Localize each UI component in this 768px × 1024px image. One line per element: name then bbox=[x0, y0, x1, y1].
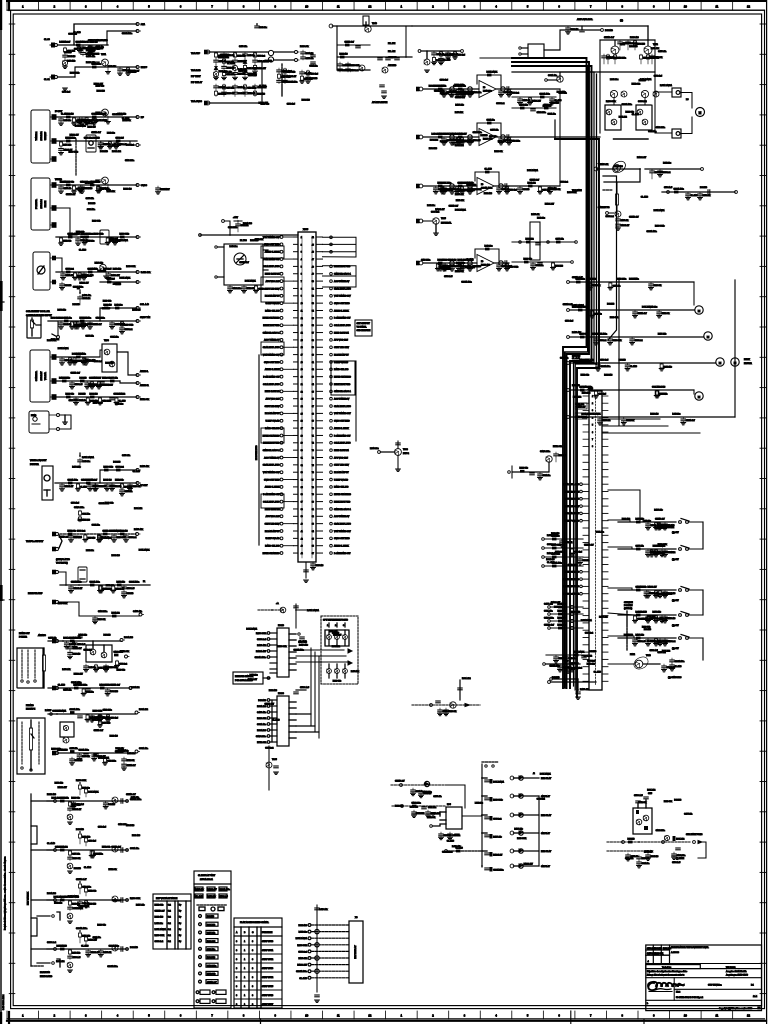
svg-text:R456 10k: R456 10k bbox=[117, 581, 125, 583]
extra drop on bus y357 bbox=[83, 357, 85, 358]
svg-text:23: 23 bbox=[301, 399, 303, 401]
svg-text:CR518 4n7: CR518 4n7 bbox=[345, 41, 355, 43]
svg-text:UHF/VHF: UHF/VHF bbox=[45, 131, 47, 140]
svg-text:CR518 4n7: CR518 4n7 bbox=[111, 846, 121, 848]
T2 row 11 box bbox=[206, 980, 218, 984]
T2 bottom box bbox=[216, 999, 226, 1003]
extra drop on bus y282 bbox=[650, 282, 652, 284]
mid right wire y58 bbox=[480, 57, 528, 59]
L stage 3 top node bbox=[79, 881, 81, 883]
svg-text:C2341 100n: C2341 100n bbox=[674, 188, 684, 190]
svg-text:56: 56 bbox=[312, 325, 314, 327]
pot P1 arrow bbox=[36, 324, 41, 326]
svg-text:R105 47k: R105 47k bbox=[493, 836, 501, 838]
amp lower wires bbox=[613, 98, 615, 105]
PIP chain 1 lower bbox=[215, 84, 217, 86]
M3 left pin 2 bbox=[294, 243, 299, 245]
T2 row 7 box bbox=[206, 947, 218, 951]
svg-text:R456 10k: R456 10k bbox=[351, 671, 359, 673]
fan feeds from connector bbox=[608, 520, 630, 522]
extra drop on bus y272 bbox=[107, 272, 109, 274]
right conn right pin 21 bbox=[602, 600, 608, 602]
svg-text:X605: X605 bbox=[303, 229, 309, 231]
svg-text:C901 10n: C901 10n bbox=[207, 949, 215, 951]
svg-text:/2: /2 bbox=[533, 773, 536, 775]
extra drop on bus y397 bbox=[115, 397, 117, 398]
svg-text:R334 6k8: R334 6k8 bbox=[644, 852, 652, 854]
B bus2 parts bbox=[60, 141, 62, 142]
PIP mid caps right bbox=[311, 54, 315, 56]
svg-text:R663 330k: R663 330k bbox=[69, 152, 78, 154]
M3 left pin 20 bbox=[294, 376, 299, 378]
M3 left pin 11 bbox=[294, 310, 299, 312]
svg-text:STBY OUT4: STBY OUT4 bbox=[262, 977, 274, 979]
rc cluster2 row bbox=[551, 627, 583, 629]
right conn left pin 19 bbox=[583, 585, 589, 587]
svg-text:2: 2 bbox=[54, 1013, 56, 1017]
top zone ruler band bbox=[7, 9, 765, 11]
y705 arrow out bbox=[465, 704, 470, 707]
svg-text:8: 8 bbox=[592, 446, 593, 448]
svg-text:9: 9 bbox=[653, 5, 655, 9]
svg-text:REMOTE AMP: REMOTE AMP bbox=[28, 592, 43, 595]
svg-text:36: 36 bbox=[301, 494, 303, 496]
T4 pin row 9 bbox=[312, 977, 349, 979]
svg-text:R772 39k: R772 39k bbox=[626, 420, 634, 422]
svg-text:R820 1k8: R820 1k8 bbox=[47, 794, 57, 796]
rows parts bbox=[526, 241, 531, 244]
right conn right pin 5 bbox=[602, 483, 608, 485]
svg-text:R820 1k8: R820 1k8 bbox=[615, 166, 623, 168]
svg-text:3.2: 3.2 bbox=[168, 917, 172, 919]
M3 right pin 33 bbox=[316, 471, 323, 473]
extra drop on bus y417 bbox=[682, 417, 684, 419]
svg-text:R772 39k: R772 39k bbox=[76, 231, 84, 233]
svg-text:C126 220n: C126 220n bbox=[422, 792, 431, 794]
K row2 jack bbox=[56, 752, 59, 755]
extra drop on bus y310 bbox=[658, 310, 660, 312]
svg-text:C338 2u2: C338 2u2 bbox=[560, 182, 568, 184]
svg-text:D651 BAV21: D651 BAV21 bbox=[75, 125, 86, 128]
svg-text:IR DATA INPUT: IR DATA INPUT bbox=[334, 471, 349, 474]
svg-text:11: 11 bbox=[716, 5, 719, 9]
LED row left stub bbox=[482, 795, 487, 797]
D bus2 wire bbox=[100, 281, 137, 283]
svg-text:AUDIO L DECK: AUDIO L DECK bbox=[334, 545, 349, 548]
svg-text:R1234 4k7: R1234 4k7 bbox=[637, 157, 646, 159]
svg-text:BAND SEL B/G: BAND SEL B/G bbox=[565, 571, 579, 574]
B bus2 wire bbox=[56, 140, 137, 142]
svg-text:CR518 4n7: CR518 4n7 bbox=[629, 217, 639, 219]
svg-text:44: 44 bbox=[312, 237, 314, 239]
A2 load chains bbox=[119, 67, 121, 69]
right conn left mini boxed labels bbox=[575, 403, 587, 409]
LED row 5 node bbox=[481, 850, 483, 852]
svg-text:0: 0 bbox=[252, 950, 254, 952]
rc cluster2 row bbox=[551, 606, 583, 608]
svg-text:C455 47n: C455 47n bbox=[658, 51, 666, 53]
svg-text:5v: 5v bbox=[179, 929, 181, 931]
LED in jack bbox=[400, 784, 403, 787]
svg-text:SDA1 DISPL BUS: SDA1 DISPL BUS bbox=[334, 287, 351, 290]
H bus parts bbox=[68, 533, 73, 536]
IC1 right stub bbox=[289, 663, 296, 665]
svg-text:74: 74 bbox=[312, 457, 314, 459]
switch circles bbox=[679, 637, 682, 640]
svg-text:R663 330k: R663 330k bbox=[467, 185, 476, 187]
svg-text:FUNCTION: FUNCTION bbox=[262, 932, 273, 934]
svg-text:R229 68k: R229 68k bbox=[98, 619, 106, 621]
svg-text:CR518 4n7: CR518 4n7 bbox=[91, 132, 101, 134]
svg-text:R820 1k8: R820 1k8 bbox=[110, 735, 118, 737]
right conn right pin 17 bbox=[602, 571, 608, 573]
frame right tick marks bbox=[760, 23, 766, 25]
transistor Q101 bbox=[102, 59, 109, 66]
svg-text:5: 5 bbox=[527, 5, 529, 9]
svg-text:3: 3 bbox=[343, 625, 344, 627]
opamp triangle bbox=[479, 129, 496, 146]
svg-text:BC848B: BC848B bbox=[589, 651, 597, 653]
svg-text:D651 BAV21: D651 BAV21 bbox=[68, 895, 79, 898]
svg-text:0: 0 bbox=[252, 995, 254, 997]
svg-text:R663 330k: R663 330k bbox=[104, 466, 113, 468]
rc cluster2 row bbox=[551, 613, 583, 615]
svg-text:R456 10k: R456 10k bbox=[652, 611, 660, 613]
M3 left pin 42 jack bbox=[280, 537, 283, 540]
svg-text:CR518 4n7: CR518 4n7 bbox=[530, 179, 540, 181]
svg-text:C455 47n: C455 47n bbox=[122, 455, 130, 457]
svg-text:R105 47k: R105 47k bbox=[600, 164, 608, 166]
svg-text:8-53 0000 1234: 8-53 0000 1234 bbox=[3, 994, 5, 1010]
svg-text:R334 6k8: R334 6k8 bbox=[429, 85, 437, 87]
T2 box r2 bbox=[219, 894, 227, 898]
L stage 1 top chain bbox=[79, 784, 81, 785]
extra drop on bus y237 bbox=[107, 237, 109, 238]
svg-text:AUDIO L: AUDIO L bbox=[140, 370, 149, 373]
cluster AV input stage A top wire bbox=[74, 24, 137, 45]
extra drop on bus y263 bbox=[444, 263, 446, 265]
L stage 1 top node bbox=[79, 782, 81, 784]
svg-text:6: 6 bbox=[558, 5, 560, 9]
svg-text:C2341 100n: C2341 100n bbox=[662, 593, 672, 595]
L stage 2 out jack bbox=[126, 849, 129, 852]
extra drop on bus y186 bbox=[435, 186, 437, 188]
svg-text:GL 4148: GL 4148 bbox=[272, 720, 279, 722]
fan wire row1 feed bbox=[608, 490, 640, 522]
LED diode bbox=[424, 781, 429, 786]
svg-text:C338 2u2: C338 2u2 bbox=[537, 799, 545, 801]
svg-text:C901 10n: C901 10n bbox=[130, 848, 140, 850]
svg-text:C901 10n: C901 10n bbox=[543, 475, 551, 477]
svg-text:45: 45 bbox=[312, 244, 314, 246]
svg-text:C338 2u2: C338 2u2 bbox=[431, 212, 439, 214]
svg-text:C2341 100n: C2341 100n bbox=[109, 945, 119, 947]
svg-text:R105 47k: R105 47k bbox=[456, 200, 464, 202]
svg-text:R663 330k: R663 330k bbox=[130, 898, 141, 900]
svg-text:SER MAINT 50/60: SER MAINT 50/60 bbox=[686, 833, 703, 836]
svg-text:R881 2k2: R881 2k2 bbox=[66, 137, 74, 139]
svg-text:1: 1 bbox=[592, 396, 593, 398]
L stage 1 out jack bbox=[126, 800, 129, 803]
svg-text:IC: IC bbox=[481, 261, 484, 263]
right conn left pin 10 bbox=[583, 520, 589, 522]
rc cluster2 row bbox=[551, 620, 583, 622]
L stage 2 top node bbox=[79, 831, 81, 833]
svg-text:3.2: 3.2 bbox=[168, 935, 172, 937]
svg-text:R820 1k8: R820 1k8 bbox=[340, 53, 348, 55]
svg-text:CR518 4n7: CR518 4n7 bbox=[638, 313, 647, 315]
svg-text:R105 47k: R105 47k bbox=[654, 509, 662, 511]
bus extra line bbox=[512, 66, 588, 688]
B out terminal bbox=[136, 116, 139, 119]
B dashed net column bbox=[75, 139, 77, 176]
svg-text:R1234 4k7: R1234 4k7 bbox=[74, 674, 83, 676]
amp right rail bbox=[654, 40, 656, 133]
right connector body bbox=[589, 391, 602, 690]
svg-text:BAND SEL B/G: BAND SEL B/G bbox=[334, 486, 349, 489]
svg-text:R456 10k: R456 10k bbox=[651, 48, 659, 50]
right conn left pin 22 bbox=[583, 607, 589, 609]
M3 left pin 14 bbox=[294, 332, 299, 334]
svg-text:C2341 100n: C2341 100n bbox=[540, 93, 550, 95]
svg-text:R229 68k: R229 68k bbox=[66, 393, 74, 395]
svg-text:R334 6k8: R334 6k8 bbox=[112, 555, 120, 557]
svg-text:79: 79 bbox=[312, 494, 314, 496]
svg-text:AN/AUS: AN/AUS bbox=[38, 634, 46, 637]
svg-text:COLOR/TINT COOL.BR: COLOR/TINT COOL.BR bbox=[26, 311, 50, 313]
M3 left pin 13 wire bbox=[283, 324, 294, 326]
K out1 bbox=[135, 711, 138, 714]
extra drop on bus y185 bbox=[98, 185, 100, 187]
svg-text:R1234 4k7: R1234 4k7 bbox=[297, 965, 308, 967]
svg-text:BC848B: BC848B bbox=[628, 838, 636, 840]
T3 row line bbox=[234, 1007, 282, 1009]
K row2 parts bbox=[70, 750, 75, 753]
svg-text:R881 2k2: R881 2k2 bbox=[443, 268, 451, 270]
svg-text:C2341 100n: C2341 100n bbox=[493, 869, 503, 871]
L stage 1 bus wire bbox=[47, 800, 128, 802]
M3 left pin 28 jack bbox=[280, 434, 283, 437]
svg-text:R229 68k: R229 68k bbox=[105, 502, 113, 504]
IC1 pin row 6 bbox=[270, 662, 277, 664]
opamp stage bus bbox=[423, 88, 479, 90]
T4 pin row 4 bbox=[312, 944, 349, 946]
svg-text:12: 12 bbox=[368, 1013, 371, 1017]
M3 right label row bbox=[330, 552, 333, 555]
svg-text:C2341 100n: C2341 100n bbox=[82, 275, 92, 277]
svg-text:R772 39k: R772 39k bbox=[122, 120, 130, 122]
svg-text:CR518 4n7: CR518 4n7 bbox=[77, 360, 86, 362]
right conn right pin 6 bbox=[602, 491, 608, 493]
svg-text:C338 2u2: C338 2u2 bbox=[116, 466, 124, 468]
svg-text:R105 47k: R105 47k bbox=[514, 829, 522, 831]
svg-text:TRAFO+SUPPLY: TRAFO+SUPPLY bbox=[26, 540, 44, 543]
svg-text:L640 22u: L640 22u bbox=[59, 41, 67, 43]
IC2 right stub bbox=[289, 737, 296, 739]
IC1 note box M8 bbox=[233, 672, 263, 684]
rc cluster row bbox=[545, 538, 583, 540]
M3 left pin 3 bbox=[294, 251, 299, 253]
M3 right pin 36 bbox=[316, 493, 323, 495]
svg-text:C789 1n5: C789 1n5 bbox=[77, 644, 85, 646]
right conn left pin 12 bbox=[583, 534, 589, 536]
vert junction bbox=[405, 26, 407, 57]
svg-text:CR518 4n7: CR518 4n7 bbox=[59, 537, 69, 539]
K box jacks bbox=[21, 767, 23, 769]
svg-text:GL 4148: GL 4148 bbox=[647, 640, 654, 642]
svg-text:5: 5 bbox=[148, 5, 150, 9]
switch row extra chain 3 bbox=[659, 590, 661, 591]
svg-text:0: 0 bbox=[236, 941, 238, 943]
svg-text:82: 82 bbox=[312, 516, 314, 518]
switch bracket bbox=[688, 521, 703, 523]
svg-text:AGC TUNER 9V: AGC TUNER 9V bbox=[264, 456, 280, 459]
svg-text:C2341 100n: C2341 100n bbox=[442, 852, 452, 854]
rc left label row bbox=[580, 512, 583, 515]
svg-text:C455 47n: C455 47n bbox=[603, 420, 611, 422]
svg-text:C338 2u2: C338 2u2 bbox=[119, 663, 127, 665]
svg-text:C126 220n: C126 220n bbox=[656, 830, 665, 832]
M3 left pin 39 jack bbox=[280, 515, 283, 518]
logo scribble overlay bbox=[655, 989, 671, 990]
svg-text:60: 60 bbox=[312, 355, 314, 357]
tint riser jack wire bbox=[57, 321, 59, 336]
svg-text:C455 47n: C455 47n bbox=[48, 637, 56, 639]
J bottom wire bbox=[48, 687, 130, 689]
svg-text:R772 39k: R772 39k bbox=[581, 375, 589, 377]
L stage 3 input jack bbox=[54, 899, 57, 902]
svg-text:R229 68k: R229 68k bbox=[449, 711, 457, 713]
PIP dashed divider bbox=[281, 64, 283, 96]
svg-text:R229 68k: R229 68k bbox=[483, 139, 493, 141]
rc left label row bbox=[580, 498, 583, 501]
svg-text:L640 22u: L640 22u bbox=[672, 413, 680, 415]
svg-text:C126 220n: C126 220n bbox=[607, 57, 616, 59]
svg-text:BC848B: BC848B bbox=[108, 804, 115, 806]
svg-text:25: 25 bbox=[301, 413, 303, 415]
svg-text:T672: T672 bbox=[653, 44, 659, 46]
amp caps x618 bbox=[627, 40, 629, 42]
IC1 pin row 5 bbox=[270, 656, 277, 658]
svg-text:C455 47n: C455 47n bbox=[636, 545, 644, 547]
M6 cell lower bbox=[335, 669, 340, 674]
A main wire bbox=[58, 44, 109, 46]
svg-text:C901 10n: C901 10n bbox=[110, 337, 118, 339]
svg-text:R1234 4k7: R1234 4k7 bbox=[288, 76, 297, 78]
M3 right label row bbox=[330, 544, 333, 547]
svg-text:AFC VCO 62.5: AFC VCO 62.5 bbox=[266, 515, 281, 518]
svg-text:D651 BAV21: D651 BAV21 bbox=[590, 412, 601, 415]
opamp chains below bbox=[443, 263, 445, 265]
left transistor Q bbox=[359, 65, 365, 71]
svg-text:IR DATA INPUT: IR DATA INPUT bbox=[265, 530, 280, 533]
svg-text:R663 330k: R663 330k bbox=[658, 544, 667, 546]
svg-text:BC848B: BC848B bbox=[605, 30, 613, 32]
svg-text:C338 2u2: C338 2u2 bbox=[493, 818, 501, 820]
T2 header line bbox=[194, 883, 231, 885]
M3 right pin 32 bbox=[316, 464, 323, 466]
svg-text:12: 12 bbox=[747, 5, 750, 9]
svg-text:MUTE SW AUDIO: MUTE SW AUDIO bbox=[263, 317, 280, 320]
M3 left pin 9 bbox=[294, 295, 299, 297]
IC2 pin row 2 bbox=[270, 705, 277, 707]
svg-text:6: 6 bbox=[592, 432, 593, 434]
svg-text:DECK MOT FWD: DECK MOT FWD bbox=[563, 586, 579, 588]
rc label mid row bbox=[580, 578, 583, 581]
svg-text:0: 0 bbox=[236, 986, 238, 988]
LED row 3 parts bbox=[485, 816, 489, 818]
rc cluster row bbox=[545, 565, 583, 567]
svg-text:38: 38 bbox=[301, 509, 303, 511]
svg-text:29504-203.31: 29504-203.31 bbox=[200, 879, 214, 881]
L stage 4 input jack bbox=[54, 948, 57, 951]
svg-text:C901 10n: C901 10n bbox=[83, 317, 91, 319]
M3 right pin 4 bbox=[316, 258, 323, 260]
svg-text:R105 47k: R105 47k bbox=[103, 588, 111, 590]
svg-text:26: 26 bbox=[301, 421, 303, 423]
svg-text:L640 22u: L640 22u bbox=[113, 283, 121, 285]
extra drop on bus y483 bbox=[106, 483, 108, 485]
svg-text:C126 220n: C126 220n bbox=[544, 618, 554, 620]
svg-text:R820 1k8: R820 1k8 bbox=[576, 417, 584, 419]
J row1 parts bbox=[70, 640, 75, 643]
svg-text:C338 2u2: C338 2u2 bbox=[649, 593, 657, 595]
y705 below parts bbox=[439, 708, 441, 710]
svg-text:24: 24 bbox=[301, 406, 303, 408]
svg-text:R1234 4k7: R1234 4k7 bbox=[665, 552, 674, 554]
svg-text:C2341 100n: C2341 100n bbox=[68, 479, 78, 481]
I bus wire bbox=[60, 584, 150, 586]
M3 left pin 12 jack bbox=[280, 316, 283, 319]
svg-text:R663 330k: R663 330k bbox=[297, 945, 307, 947]
svg-text:L640 22u: L640 22u bbox=[259, 27, 267, 29]
M3 left pin 34 wire bbox=[283, 479, 294, 481]
M3 right pin 42 bbox=[316, 537, 323, 539]
svg-text:R1234 4k7: R1234 4k7 bbox=[70, 135, 79, 137]
opamp out wire bbox=[496, 88, 511, 90]
svg-text:4: 4 bbox=[117, 1013, 119, 1017]
svg-text:R334 6k8: R334 6k8 bbox=[657, 386, 665, 388]
svg-text:1: 1 bbox=[244, 986, 246, 988]
M3 left pin 6 jack bbox=[280, 272, 283, 275]
svg-text:CR518 4n7: CR518 4n7 bbox=[88, 479, 98, 481]
svg-text:R772 39k: R772 39k bbox=[102, 846, 110, 848]
extra drop on bus y137 bbox=[458, 137, 460, 138]
mid cluster wire bbox=[512, 471, 548, 473]
L stage 3 top chain bbox=[79, 883, 81, 884]
svg-text:C789 1n5: C789 1n5 bbox=[647, 948, 655, 950]
svg-text:C455 47n: C455 47n bbox=[70, 748, 78, 750]
LED row 4 diode symbol bbox=[519, 831, 523, 835]
extra drop on bus y282 bbox=[609, 282, 611, 283]
T2 row 4 jack bbox=[199, 923, 202, 926]
svg-text:5v: 5v bbox=[179, 941, 181, 943]
svg-text:R334 6k8: R334 6k8 bbox=[629, 278, 637, 280]
svg-text:0: 0 bbox=[236, 977, 238, 979]
M3 left pin 9 jack bbox=[280, 294, 283, 297]
svg-text:C2341 100n: C2341 100n bbox=[71, 682, 81, 684]
L stage 3 lower transistor bbox=[67, 913, 73, 919]
svg-text:R772 39k: R772 39k bbox=[108, 869, 116, 871]
svg-text:C2341 100n: C2341 100n bbox=[70, 709, 80, 711]
right conn right pin 19 bbox=[602, 585, 608, 587]
svg-text:C126 220n: C126 220n bbox=[207, 965, 216, 967]
chain right of box C bbox=[157, 186, 159, 188]
G out terminal bbox=[136, 482, 139, 485]
svg-text:61: 61 bbox=[312, 362, 314, 364]
M3 right pin 15 bbox=[316, 339, 323, 341]
right conn right pin 9 bbox=[602, 512, 608, 514]
